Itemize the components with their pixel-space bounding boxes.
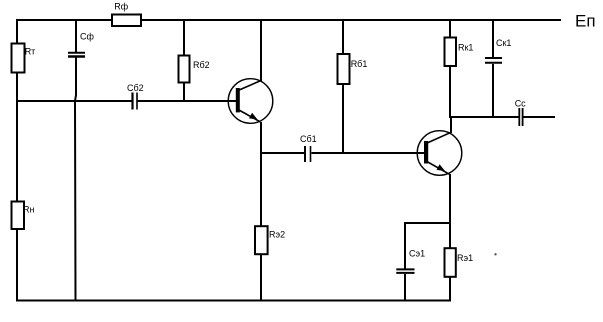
svg-text:Еп: Еп	[575, 12, 596, 31]
resistor Re2	[255, 226, 285, 254]
wire output node horizontal (left of Cc)	[449, 116, 519, 118]
resistor Re1	[445, 248, 474, 277]
wire Cb1 horizontal (left of Cb1)	[260, 152, 304, 154]
svg-text:Rэ1: Rэ1	[457, 253, 473, 263]
svg-text:Rф: Rф	[114, 2, 128, 12]
svg-text:Ск1: Ск1	[496, 38, 511, 48]
resistor Rf	[112, 2, 141, 27]
wire Q1 emitter vertical down to bottom rail	[260, 122, 262, 302]
svg-text:Rт: Rт	[25, 47, 36, 57]
wire Rb1 vertical	[342, 19, 344, 154]
wire Rb2 vertical	[183, 20, 185, 101]
wire emitter branch horizontal to Ce1	[404, 222, 450, 224]
wire input horizontal (left of Cb2)	[16, 100, 132, 102]
transistor Q2	[417, 131, 462, 176]
wire top supply rail	[16, 19, 561, 21]
capacitor Ck1	[485, 38, 511, 63]
stray dot	[494, 253, 496, 255]
svg-text:Rк1: Rк1	[458, 43, 473, 53]
capacitor Cb2	[127, 83, 144, 110]
svg-text:Rэ2: Rэ2	[269, 230, 285, 240]
wire Cb1 horizontal (right of Cb1)	[312, 152, 426, 154]
wire Q2 emitter vertical down to bottom rail	[449, 174, 451, 302]
svg-text:Rб1: Rб1	[351, 59, 368, 69]
wire Cf vertical branch with jog	[75, 21, 77, 53]
resistor Rb2	[179, 56, 210, 83]
svg-text:Сб2: Сб2	[127, 83, 144, 93]
capacitor Cf	[68, 32, 94, 57]
svg-text:Rн: Rн	[23, 205, 34, 215]
wire bottom ground rail	[16, 300, 451, 302]
resistor Rb1	[338, 54, 368, 84]
transistor Q1	[228, 79, 273, 124]
capacitor Cc	[515, 99, 526, 127]
wire left vertical branch	[16, 19, 18, 302]
wire output horizontal (right of Cc)	[524, 116, 556, 118]
svg-text:Сф: Сф	[80, 32, 94, 42]
wire Rk1 vertical	[449, 19, 451, 118]
svg-text:Сэ1: Сэ1	[409, 249, 425, 259]
svg-text:Rб2: Rб2	[193, 60, 210, 70]
wire Q1 collector vertical	[260, 19, 262, 81]
svg-text:Сс: Сс	[515, 99, 526, 109]
wire Ce1 vertical	[404, 222, 406, 269]
svg-text:Сб1: Сб1	[300, 134, 317, 144]
resistor Rt	[12, 44, 36, 73]
wire Ck1 vertical	[492, 19, 494, 57]
capacitor Cb1	[300, 134, 317, 162]
wire Q2 collector vertical	[450, 117, 452, 133]
capacitor Ce1	[396, 249, 425, 273]
resistor Rn	[12, 202, 35, 230]
resistor Rk1	[445, 38, 474, 67]
wire input horizontal (right of Cb2)	[138, 100, 238, 102]
